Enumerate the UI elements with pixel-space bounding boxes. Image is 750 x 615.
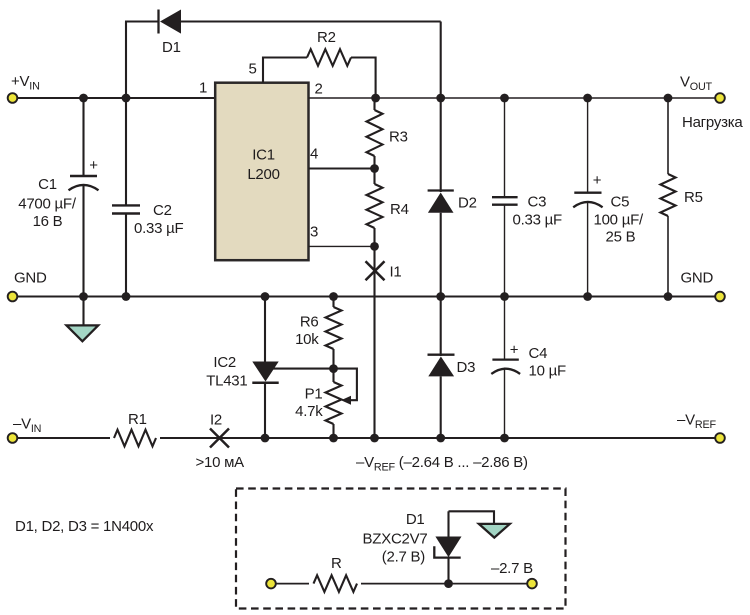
wire: top rail left segment bbox=[125, 20, 159, 22]
wire: Vout rail from IC pin 2 to terminal bbox=[309, 97, 716, 99]
node: C2 junction on GND rail bbox=[122, 292, 131, 301]
potentiometer P1 4.7k bbox=[295, 369, 357, 438]
node: R2/R3 junction on Vout rail bbox=[371, 94, 380, 103]
svg-text:I1: I1 bbox=[390, 264, 402, 281]
current marker I2 bbox=[196, 412, 245, 472]
node: P1 junction on -Vref rail bbox=[329, 434, 338, 443]
svg-text:2: 2 bbox=[315, 81, 323, 98]
resistor R4 bbox=[367, 169, 409, 247]
svg-text:R1: R1 bbox=[128, 411, 147, 428]
svg-text:100 µF/: 100 µF/ bbox=[594, 211, 644, 228]
terminal -Vin bbox=[8, 433, 18, 443]
node: C3/C4 junction on GND rail bbox=[500, 292, 509, 301]
resistor R5 (load) bbox=[660, 98, 702, 297]
node: R5 junction on Vout rail bbox=[664, 94, 673, 103]
inset dashed box bbox=[236, 489, 566, 609]
capacitor C2 bbox=[112, 98, 184, 297]
terminal Vout bbox=[715, 93, 725, 103]
svg-text:TL431: TL431 bbox=[206, 373, 247, 390]
wire: IC2 column from GND rail bbox=[264, 297, 266, 362]
svg-text:IC1: IC1 bbox=[252, 147, 275, 164]
node: pin4/R3/R4 junction bbox=[370, 164, 379, 173]
svg-text:C5: C5 bbox=[611, 193, 630, 210]
capacitor C1 (polarized electrolytic) bbox=[18, 98, 98, 297]
wire: TL431 ref to R6/P1 node bbox=[272, 368, 334, 370]
capacitor C4 (polarized) bbox=[491, 297, 566, 439]
svg-text:16 В: 16 В bbox=[33, 213, 63, 230]
svg-text:GND: GND bbox=[14, 270, 47, 287]
ground symbol (main) bbox=[67, 297, 99, 342]
svg-text:4: 4 bbox=[310, 146, 318, 163]
node: IC2 junction on GND rail bbox=[261, 292, 270, 301]
svg-text:D1: D1 bbox=[162, 39, 181, 56]
diode D2 (pointing up) bbox=[428, 98, 477, 297]
svg-text:R: R bbox=[331, 555, 342, 572]
node: R6/P1/TL431 junction bbox=[329, 364, 338, 373]
resistor R2 bbox=[307, 29, 351, 66]
wire: GND rail bbox=[18, 295, 716, 297]
svg-text:C4: C4 bbox=[529, 345, 548, 362]
diode D3 (pointing up) bbox=[428, 297, 476, 439]
svg-text:P1: P1 bbox=[305, 386, 323, 403]
svg-text:Нагрузка: Нагрузка bbox=[682, 114, 743, 131]
svg-text:4700 µF/: 4700 µF/ bbox=[18, 196, 77, 213]
svg-text:D3: D3 bbox=[457, 359, 476, 376]
svg-text:D1, D2, D3 = 1N400x: D1, D2, D3 = 1N400x bbox=[15, 518, 154, 535]
svg-text:R5: R5 bbox=[684, 189, 703, 206]
svg-text:+: + bbox=[89, 157, 98, 174]
svg-text:+: + bbox=[593, 172, 602, 189]
node: D3 junction on -Vref rail bbox=[436, 434, 445, 443]
svg-text:C3: C3 bbox=[528, 193, 547, 210]
terminal -Vref bbox=[715, 433, 725, 443]
terminal GND left bbox=[8, 292, 18, 302]
node: R5 junction on GND rail bbox=[664, 292, 673, 301]
svg-text:IC2: IC2 bbox=[213, 354, 236, 371]
ground symbol (inset) bbox=[479, 524, 510, 538]
svg-text:25 В: 25 В bbox=[606, 228, 636, 245]
capacitor C5 (polarized electrolytic) bbox=[573, 98, 644, 297]
IC2 TL431 (shunt reference, diode-like symbol) bbox=[206, 354, 278, 390]
svg-text:C2: C2 bbox=[153, 202, 172, 219]
node: D2 junction on Vout rail bbox=[436, 94, 445, 103]
svg-text:BZXC2V7: BZXC2V7 bbox=[363, 531, 428, 548]
svg-text:C1: C1 bbox=[38, 176, 57, 193]
svg-text:R4: R4 bbox=[390, 201, 409, 218]
svg-text:10 µF: 10 µF bbox=[529, 363, 566, 380]
svg-text:I2: I2 bbox=[210, 412, 222, 429]
node: IC2 junction on -Vref rail bbox=[261, 434, 270, 443]
capacitor C3 bbox=[492, 98, 562, 297]
wire: left branch up from +Vin node to top rail bbox=[125, 22, 127, 99]
svg-text:>10 мА: >10 мА bbox=[196, 454, 245, 471]
svg-text:3: 3 bbox=[310, 224, 318, 241]
wire: pin 4 to divider bbox=[309, 168, 375, 170]
wire: -Vin rail bbox=[18, 437, 716, 439]
node: I1 junction on -Vref rail bbox=[370, 434, 379, 443]
wire: zener anode to ground (inset) bbox=[449, 511, 495, 524]
wire: R2 to Vout rail bbox=[351, 58, 376, 99]
svg-text:L200: L200 bbox=[247, 166, 279, 183]
svg-text:GND: GND bbox=[681, 270, 714, 287]
node: C4 junction on -Vref rail bbox=[500, 434, 509, 443]
wire: +Vin rail to IC pin 1 bbox=[18, 97, 216, 99]
svg-text:–2.7 В: –2.7 В bbox=[491, 560, 533, 577]
resistor R (inset) bbox=[309, 555, 361, 593]
node: R6 junction on GND rail bbox=[329, 292, 338, 301]
node: C1 junction on GND rail bbox=[79, 292, 88, 301]
resistor R6 10k bbox=[295, 297, 341, 369]
node: D2/D3 junction on GND rail bbox=[436, 292, 445, 301]
svg-text:0.33 µF: 0.33 µF bbox=[513, 211, 563, 228]
wire: pin 5 up to R2 bbox=[263, 58, 307, 83]
svg-text:10k: 10k bbox=[295, 331, 319, 348]
node: zener junction on inset rail bbox=[444, 579, 453, 588]
wire: I1 column down to -Vref rail bbox=[373, 246, 375, 438]
svg-text:5: 5 bbox=[249, 61, 257, 78]
current source marker I1 bbox=[366, 261, 402, 280]
terminal inset left bbox=[266, 579, 276, 589]
wire: inset rail bbox=[276, 583, 527, 585]
svg-text:(2.7 В): (2.7 В) bbox=[382, 549, 426, 566]
node: pin3/R4 junction bbox=[370, 242, 379, 251]
terminal inset right bbox=[527, 579, 537, 589]
wire: branch down from top rail to Vout rail (D2 column) bbox=[440, 22, 442, 99]
resistor R1 bbox=[110, 411, 160, 447]
zener diode D1 BZXC2V7 (inset, pointing down) bbox=[363, 511, 462, 584]
wire: top rail right segment bbox=[181, 20, 441, 22]
svg-text:D2: D2 bbox=[458, 195, 477, 212]
op-amp / regulator IC1 L200 body bbox=[215, 83, 308, 261]
resistor R3 bbox=[367, 98, 408, 169]
node: C1 junction on +Vin rail bbox=[79, 94, 88, 103]
svg-text:4.7k: 4.7k bbox=[295, 403, 323, 420]
svg-text:D1: D1 bbox=[406, 511, 425, 528]
wire: pin 3 to divider bbox=[309, 245, 375, 247]
node: C5 junction on GND rail bbox=[583, 292, 592, 301]
svg-text:1: 1 bbox=[199, 80, 207, 97]
svg-text:+: + bbox=[510, 342, 519, 359]
node: C2 junction on +Vin rail bbox=[122, 94, 131, 103]
wire: TL431 to bottom rail bbox=[264, 383, 266, 438]
node: C5 junction on Vout rail bbox=[583, 94, 592, 103]
svg-text:0.33 µF: 0.33 µF bbox=[134, 220, 184, 237]
svg-text:R2: R2 bbox=[317, 29, 336, 46]
node: C3 junction on Vout rail bbox=[500, 94, 509, 103]
svg-text:R6: R6 bbox=[300, 314, 319, 331]
terminal +Vin bbox=[8, 93, 18, 103]
svg-text:R3: R3 bbox=[389, 129, 408, 146]
terminal GND right bbox=[715, 292, 725, 302]
diode D1 (top, pointing left) bbox=[159, 10, 182, 57]
